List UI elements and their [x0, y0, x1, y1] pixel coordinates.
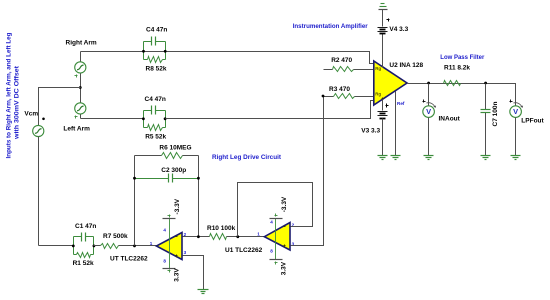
- resistor R5 branch leads: [144, 127, 166, 129]
- svg-text:R11 8.2k: R11 8.2k: [444, 65, 470, 72]
- source VG2 Left Arm: [75, 103, 86, 114]
- wire feedback top side right: [183, 155, 199, 157]
- wire R10 to U1 output: [227, 236, 265, 238]
- svg-text:Ref: Ref: [397, 101, 405, 106]
- svg-text:V: V: [513, 107, 518, 116]
- node C2 left: [133, 177, 136, 180]
- wire bus to R3: [324, 96, 334, 98]
- op-amp UT input polarity marks: [176, 237, 178, 258]
- resistor R6 10MEG: [162, 153, 183, 159]
- wire U1 feedback loop: [238, 183, 313, 237]
- node junction RA/LA/Vcm: [79, 86, 82, 89]
- wire junction to Vcm branch: [39, 88, 81, 126]
- label R3 470: [329, 86, 350, 93]
- blue caption: Instrumentation Amplifier: [293, 23, 368, 30]
- voltmeter LPFout: [510, 100, 545, 125]
- resistor R11 8.2k: [444, 81, 461, 86]
- node R3 bus junction: [322, 95, 325, 98]
- label Ref pin: [397, 101, 405, 106]
- ground LPFout: [511, 156, 521, 160]
- resistor R10 100k: [210, 234, 227, 240]
- label Vcm: [24, 111, 38, 118]
- pin 4 UT: [163, 228, 166, 233]
- op-amp U1 TLC2262: [264, 223, 290, 251]
- svg-text:8: 8: [163, 258, 166, 263]
- node C2 right: [197, 177, 200, 180]
- svg-text:2: 2: [184, 232, 187, 237]
- capacitor C1/R1 parallel box legs: [74, 237, 94, 255]
- wire R7 to UT output tip: [119, 245, 157, 247]
- op-amp U2 INA128 triangle: [374, 61, 407, 105]
- wire LPFout meter to ground: [515, 118, 517, 156]
- svg-text:U2 INA 128: U2 INA 128: [389, 62, 423, 69]
- pin 3 UT: [184, 250, 187, 255]
- supply V- wire to battery V3: [382, 100, 384, 111]
- svg-text:R5 52k: R5 52k: [145, 133, 166, 140]
- wire top rail into C4/R8: [0, 0, 1, 1]
- svg-text:4: 4: [270, 219, 273, 224]
- label -3.3V U1: [281, 196, 288, 212]
- blue caption: Inputs to Right Arm, left Arm, and Left Leg: [6, 32, 13, 158]
- label R5 52k: [145, 133, 166, 140]
- blue caption: Right Leg Drive Circuit: [212, 154, 282, 161]
- blue caption line 2: with 300mV DC Offset: [14, 65, 21, 140]
- op-amp UT TLC2262: [156, 233, 182, 260]
- resistor R5 52k: [148, 125, 163, 131]
- svg-text:LPFout: LPFout: [521, 118, 544, 125]
- node B feedback tap: [133, 245, 136, 248]
- svg-text:3: 3: [184, 250, 187, 255]
- label C4 47n (top): [146, 26, 167, 33]
- label R10 100k: [207, 225, 236, 232]
- label R7 500k: [103, 233, 128, 240]
- voltmeter INAout: [423, 100, 461, 123]
- pin 1 UT: [150, 241, 153, 246]
- svg-text:-3.3V: -3.3V: [174, 198, 181, 214]
- wire Right Arm source to junction: [80, 74, 82, 103]
- wire C1/R1 to R7: [94, 245, 101, 247]
- wire INA output rail: [408, 84, 516, 106]
- supply bar U1 bottom: [270, 260, 283, 265]
- svg-text:3.3V: 3.3V: [281, 261, 288, 275]
- svg-text:Left Arm: Left Arm: [63, 126, 90, 133]
- label C4 47n (second): [145, 96, 166, 103]
- svg-text:R8 52k: R8 52k: [146, 66, 167, 73]
- wire V3 to ground: [382, 119, 384, 156]
- label V3 3.3: [361, 128, 380, 135]
- label 3.3V UT: [174, 268, 181, 282]
- pin 2 U1: [292, 223, 295, 228]
- svg-text:INAout: INAout: [439, 116, 461, 123]
- ground INAout: [424, 156, 434, 160]
- pin 8 UT: [163, 258, 166, 263]
- capacitor C7 100n: [481, 110, 491, 113]
- resistor R7 500k: [101, 244, 119, 249]
- resistor R8 branch leads: [144, 59, 166, 61]
- wire Left Arm source to mid rail: [80, 115, 82, 119]
- node INAout tap: [427, 82, 430, 85]
- node C4/R8 right: [164, 50, 167, 53]
- svg-text:V: V: [426, 107, 431, 116]
- label Right Arm: [66, 40, 97, 47]
- supply rail UT vertical: [169, 219, 171, 269]
- label C1 47n: [75, 223, 96, 230]
- wire feedback loop left leg: [134, 156, 136, 246]
- wire feedback top side left: [135, 155, 162, 157]
- node C4/R5 right: [164, 117, 167, 120]
- svg-text:Right Leg Drive Circuit: Right Leg Drive Circuit: [212, 154, 282, 161]
- ground Ref: [391, 156, 401, 160]
- svg-text:Rg: Rg: [375, 66, 381, 71]
- pin 8 U1: [270, 248, 273, 253]
- resistor R8 52k: [148, 57, 163, 63]
- ground C7: [481, 156, 491, 160]
- label R11 8.2k: [444, 65, 470, 72]
- svg-text:U1 TLC2262: U1 TLC2262: [225, 247, 263, 254]
- label Rg top inside INA: [375, 66, 381, 71]
- svg-text:C7 100n: C7 100n: [492, 102, 499, 127]
- battery V4 3.3: [378, 28, 388, 34]
- wire bus to R2: [324, 69, 333, 71]
- svg-text:8: 8: [270, 248, 273, 253]
- svg-text:3.3V: 3.3V: [174, 268, 181, 282]
- svg-text:1: 1: [257, 231, 260, 236]
- wire INAout meter to ground: [428, 118, 430, 156]
- wire mid rail Left Arm to combo: [81, 118, 144, 120]
- label R2 470: [331, 57, 352, 64]
- pin 2 UT: [184, 232, 187, 237]
- capacitor C4b/R5 parallel box legs: [144, 111, 166, 128]
- supply bar U1 top: [270, 214, 283, 219]
- label 3.3V U1: [281, 261, 288, 275]
- resistor R1 branch leads: [74, 254, 94, 256]
- resistor R1 52k: [77, 253, 91, 258]
- wire Ref to ground: [395, 92, 397, 156]
- node U1 output junction: [236, 235, 239, 238]
- resistor R3 470: [334, 94, 355, 99]
- op-amp U1 input polarity marks: [284, 227, 286, 248]
- label C7 100n: [492, 102, 499, 127]
- svg-text:C2 300p: C2 300p: [161, 167, 186, 174]
- source VG3 Vcm: [33, 125, 44, 136]
- wire UT pin3 to ground: [183, 256, 204, 290]
- ground UT pin3: [198, 290, 209, 294]
- node C1/R1 right: [93, 245, 96, 248]
- node C7 tap: [484, 82, 487, 85]
- pin 4 U1: [270, 219, 273, 224]
- plus mark V4: [387, 19, 390, 22]
- plus mark V3: [386, 104, 389, 108]
- label C2 300p: [161, 167, 186, 174]
- pin 1 U1: [257, 231, 260, 236]
- svg-text:1: 1: [150, 241, 153, 246]
- svg-text:C1 47n: C1 47n: [75, 223, 96, 230]
- svg-text:C4 47n: C4 47n: [145, 96, 166, 103]
- wire U1 pin3 to common-mode bus: [291, 97, 324, 246]
- pin 3 U1: [292, 242, 295, 247]
- svg-text:R7 500k: R7 500k: [103, 233, 128, 240]
- supply V+ wire from V4: [382, 10, 384, 68]
- capacitor C4 (top) with R8 parallel box left leg: [144, 42, 166, 60]
- svg-text:Instrumentation Amplifier: Instrumentation Amplifier: [293, 23, 368, 30]
- label R8 52k: [146, 66, 167, 73]
- supply bar UT top: [163, 215, 176, 219]
- svg-text:R10 100k: R10 100k: [207, 225, 236, 232]
- label V4 3.3: [389, 26, 408, 33]
- wire Vcm source down to bottom rail: [38, 137, 40, 246]
- node C4/R5 left: [142, 117, 145, 120]
- battery V3 3.3: [378, 112, 388, 119]
- svg-text:R6 10MEG: R6 10MEG: [159, 144, 191, 151]
- label R6 10MEG: [159, 144, 191, 151]
- wire INAout meter drop: [428, 84, 430, 106]
- blue caption: Low Pass Filter: [440, 54, 484, 61]
- svg-text:UT TLC2262: UT TLC2262: [110, 256, 148, 263]
- svg-text:V4 3.3: V4 3.3: [389, 26, 408, 33]
- resistor R2 470: [333, 67, 354, 72]
- svg-text:Inputs to Right Arm, left Arm,: Inputs to Right Arm, left Arm, and Left …: [6, 32, 13, 158]
- wire Right Arm source top stub: [80, 52, 82, 62]
- svg-text:with 300mV DC Offset: with 300mV DC Offset: [14, 65, 21, 140]
- wire bottom rail from Vcm branch: [39, 245, 74, 247]
- svg-text:C4 47n: C4 47n: [146, 26, 167, 33]
- ground V3: [378, 156, 388, 160]
- svg-text:R1 52k: R1 52k: [73, 260, 94, 267]
- capacitor C1 47n branch: [74, 233, 94, 242]
- svg-text:Vcm: Vcm: [24, 111, 38, 118]
- label U1 TLC2262: [225, 247, 263, 254]
- supply rail U1 vertical: [275, 219, 277, 260]
- polarity mark Right Arm source: [75, 75, 78, 78]
- wire C7 drop: [485, 84, 487, 156]
- node UT inverting input: [197, 235, 200, 238]
- polarity mark Left Arm source: [75, 116, 78, 119]
- svg-text:R3 470: R3 470: [329, 86, 350, 93]
- wire top rail Right Arm to INA In-: [81, 52, 374, 64]
- node C4/R8 left: [142, 50, 145, 53]
- capacitor C2 300p: [135, 174, 199, 183]
- svg-text:R2 470: R2 470: [331, 57, 352, 64]
- node C1/R1 left: [72, 245, 75, 248]
- wire R2 to INA Rg1: [354, 69, 374, 71]
- source VG1 Right Arm: [75, 62, 86, 73]
- power tap above V4: [379, 4, 388, 10]
- label R1 52k: [73, 260, 94, 267]
- supply bar UT bottom: [163, 269, 176, 273]
- svg-text:-3.3V: -3.3V: [281, 196, 288, 212]
- polarity dot Vcm source: [42, 118, 45, 121]
- svg-text:4: 4: [163, 228, 166, 233]
- label UT TLC2262: [110, 256, 148, 263]
- svg-text:Right Arm: Right Arm: [66, 40, 97, 47]
- wire feedback loop right leg: [198, 156, 200, 237]
- wire R3 to INA Rg2: [355, 96, 374, 98]
- wire UT pin2 to R10 run: [183, 236, 210, 238]
- label -3.3V UT: [174, 198, 181, 214]
- svg-text:Low Pass Filter: Low Pass Filter: [440, 54, 484, 61]
- wire mid rail to INA In+: [166, 101, 374, 119]
- capacitor C4 top branch: [144, 37, 166, 46]
- label Left Arm: [63, 126, 90, 133]
- svg-text:V3 3.3: V3 3.3: [361, 128, 380, 135]
- label U2 INA 128: [389, 62, 423, 69]
- capacitor C4 (second) branch: [144, 106, 166, 115]
- label Rg bottom inside INA: [375, 91, 384, 101]
